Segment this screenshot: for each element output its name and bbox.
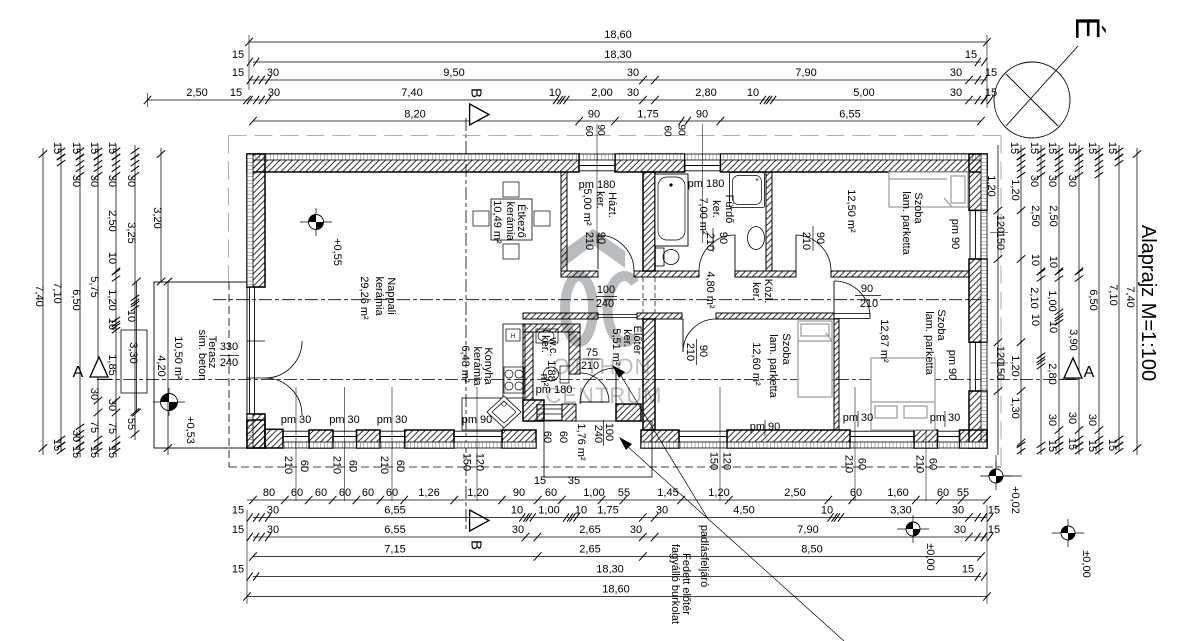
svg-text:10: 10 [1047, 256, 1059, 268]
svg-text:90: 90 [717, 232, 729, 244]
svg-text:120: 120 [994, 215, 1006, 233]
wall: left exterior segment bottom [247, 414, 265, 448]
wall: partition 12.60/12.87 x834 [834, 319, 839, 430]
wall: Wc west x523 [523, 332, 533, 400]
svg-text:2,00: 2,00 [591, 87, 612, 99]
svg-text:30: 30 [952, 505, 964, 517]
dim col right 7,40 [1136, 148, 1138, 455]
svg-text:15: 15 [1066, 438, 1078, 450]
svg-text:18,30: 18,30 [596, 564, 624, 576]
svg-text:90: 90 [513, 487, 525, 499]
svg-text:7,10: 7,10 [51, 282, 63, 303]
north arrow circle [994, 62, 1070, 138]
svg-text:1,20: 1,20 [1009, 355, 1021, 376]
axis line horizontal y300 dash-dot [213, 299, 990, 301]
kitchen stove [504, 367, 524, 393]
svg-text:30: 30 [1066, 175, 1078, 187]
svg-text:ker.: ker. [750, 282, 762, 300]
dim col left 7,40 [42, 148, 44, 455]
svg-text:150: 150 [994, 362, 1006, 380]
svg-text:8,50: 8,50 [801, 544, 822, 556]
svg-text:3,25: 3,25 [125, 222, 137, 243]
dim col right window line [997, 145, 999, 455]
elevation marker plusmn 0,00 right [1052, 532, 1084, 534]
svg-text:fagyálló burkolat: fagyálló burkolat [669, 544, 681, 624]
kitchen counter vertical [503, 324, 525, 398]
wall: Wc east x569-580 [569, 332, 580, 374]
svg-text:2,65: 2,65 [579, 544, 600, 556]
svg-text:15: 15 [1086, 440, 1098, 452]
svg-text:8,20: 8,20 [404, 109, 425, 121]
svg-text:30: 30 [88, 175, 100, 187]
svg-text:Szoba: Szoba [780, 333, 792, 365]
section marker A left [90, 357, 108, 377]
svg-text:15: 15 [1106, 439, 1118, 451]
dim col right 2,50/1,00/2,80 [1058, 145, 1060, 455]
porch outline [544, 421, 652, 477]
dim row top 18,30 [253, 61, 981, 63]
terrace door glazing 330/240 [249, 287, 251, 414]
svg-text:pm 90: pm 90 [949, 219, 961, 250]
dim col terrace 4,20 [167, 282, 169, 456]
svg-text:10: 10 [106, 252, 118, 264]
wall: top exterior segment left [247, 154, 579, 172]
svg-text:OTTHON: OTTHON [553, 354, 652, 379]
svg-text:5,00 m²: 5,00 m² [581, 188, 593, 226]
svg-text:10: 10 [1029, 314, 1041, 326]
svg-text:ker.: ker. [710, 200, 722, 218]
svg-text:60: 60 [541, 431, 553, 443]
entry door opening [575, 404, 577, 421]
svg-text:210: 210 [684, 343, 696, 361]
svg-text:30: 30 [267, 524, 279, 536]
svg-text:210: 210 [704, 233, 716, 251]
dim row bottom b4 [253, 556, 981, 558]
wall: corridor north y271-277 segments [561, 271, 598, 277]
svg-text:Alaprajz M=1:100: Alaprajz M=1:100 [1137, 225, 1159, 381]
svg-text:±0,00: ±0,00 [924, 543, 936, 570]
svg-text:60: 60 [662, 125, 673, 137]
svg-text:lam. parketta: lam. parketta [767, 334, 779, 398]
window top W2 pm180 90cm [685, 154, 721, 160]
svg-text:7,10: 7,10 [1107, 284, 1119, 305]
svg-text:30: 30 [656, 505, 668, 517]
svg-text:15: 15 [51, 142, 63, 154]
svg-text:30: 30 [1046, 175, 1058, 187]
svg-text:2,80: 2,80 [1046, 363, 1058, 384]
wall: 30cm Hazt/Furdo x643-655 upper [643, 172, 655, 271]
svg-text:80: 80 [263, 487, 275, 499]
wall: top exterior segment mid [615, 154, 685, 172]
section marker B top [470, 104, 489, 125]
opening Elater/kitchen 100/240 [597, 313, 599, 319]
bed Szoba 12.87 double [871, 358, 935, 430]
svg-text:60: 60 [583, 125, 594, 137]
kitchen counter bottom [462, 398, 503, 430]
svg-text:kerámia: kerámia [373, 276, 385, 316]
svg-text:30: 30 [125, 175, 137, 187]
svg-text:1,20: 1,20 [985, 175, 997, 196]
svg-text:15: 15 [988, 505, 1000, 517]
svg-text:330: 330 [220, 341, 238, 353]
kitchen fridge H [506, 329, 520, 341]
svg-text:30: 30 [268, 87, 280, 99]
svg-text:4,80 m²: 4,80 m² [704, 271, 716, 309]
svg-text:15: 15 [965, 49, 977, 61]
svg-text:30: 30 [1086, 414, 1098, 426]
window bottom W4 pm90 [454, 430, 502, 432]
svg-text:É: É [1068, 17, 1106, 40]
elevation marker +0,55 Nappali [300, 221, 332, 223]
svg-text:15: 15 [534, 475, 546, 487]
toilet Furdo [655, 248, 664, 266]
svg-text:+0,55: +0,55 [331, 238, 343, 266]
svg-text:210: 210 [378, 456, 390, 474]
svg-text:60: 60 [545, 487, 557, 499]
svg-text:55: 55 [618, 487, 630, 499]
dining chairs [503, 182, 519, 197]
dim col right 1,20/1,30 [1020, 145, 1022, 455]
wall: bottom exterior segments [309, 430, 333, 448]
svg-text:2,50: 2,50 [1047, 205, 1059, 226]
svg-text:7,00 m²: 7,00 m² [697, 197, 709, 235]
svg-text:ker.: ker. [539, 335, 551, 353]
dim row top detail 2,50 / 7,40 / 2,00 / 2,80 / 5,00 [148, 99, 988, 101]
svg-text:15: 15 [232, 564, 244, 576]
wall: entry facade window block [562, 404, 576, 421]
svg-text:2,50: 2,50 [106, 210, 118, 231]
wall: entry facade left block [523, 400, 544, 421]
watermark logo roof chevron [562, 229, 625, 268]
svg-text:10: 10 [821, 505, 833, 517]
svg-text:10,49 m²: 10,49 m² [491, 200, 503, 244]
svg-text:4,50: 4,50 [733, 505, 754, 517]
svg-text:sim. beton: sim. beton [196, 330, 208, 381]
elevation marker +0,02 SE corner [995, 455, 997, 476]
svg-text:1,26: 1,26 [418, 487, 439, 499]
svg-text:60: 60 [339, 487, 351, 499]
wall: right exterior segment top [969, 154, 987, 210]
svg-text:210: 210 [800, 232, 812, 250]
svg-text:90: 90 [861, 283, 873, 295]
svg-text:90: 90 [676, 124, 687, 136]
dim row top 18,60 [249, 41, 987, 43]
dim col terrace 3,30 [136, 282, 138, 413]
svg-text:6,55: 6,55 [384, 524, 405, 536]
svg-text:90: 90 [595, 124, 606, 136]
svg-text:15: 15 [232, 505, 244, 517]
svg-text:12,60 m²: 12,60 m² [750, 342, 762, 386]
svg-text:lam. parketta: lam. parketta [923, 311, 935, 375]
svg-text:10: 10 [106, 318, 118, 330]
svg-text:B: B [468, 88, 485, 98]
svg-text:3,90: 3,90 [1067, 329, 1079, 350]
window bottom W5 pm30 [850, 430, 914, 432]
svg-text:18,30: 18,30 [604, 49, 632, 61]
svg-text:150: 150 [994, 232, 1006, 250]
svg-text:60: 60 [850, 487, 862, 499]
svg-text:1,20: 1,20 [106, 289, 118, 310]
svg-text:1,20: 1,20 [708, 487, 729, 499]
window bottom W2 pm30 [333, 430, 357, 432]
svg-text:210: 210 [860, 298, 878, 310]
leader: padlasfeljaro arrow [612, 365, 625, 378]
svg-text:1,30: 1,30 [1009, 397, 1021, 418]
svg-text:60: 60 [557, 431, 569, 443]
svg-text:2,10: 2,10 [1028, 287, 1040, 308]
svg-text:15: 15 [51, 439, 63, 451]
kitchen corner sink diamond [487, 396, 521, 428]
svg-text:10: 10 [575, 505, 587, 517]
terrace door leaf upper swing [265, 341, 302, 378]
svg-text:55: 55 [957, 487, 969, 499]
terrace roof edge dashed vertical [228, 282, 230, 467]
svg-text:120: 120 [721, 452, 733, 470]
svg-text:1,75: 1,75 [597, 505, 618, 517]
entry door leaf and swing [615, 368, 617, 404]
svg-text:210: 210 [843, 455, 855, 473]
svg-text:75: 75 [586, 347, 598, 359]
svg-text:H: H [511, 334, 515, 340]
svg-text:+0,02: +0,02 [1009, 486, 1021, 514]
svg-text:pm 90: pm 90 [946, 350, 958, 381]
svg-text:15: 15 [70, 142, 82, 154]
svg-text:Fürdő: Fürdő [723, 195, 735, 224]
section line A horizontal dash-dot [100, 379, 1080, 381]
bottom window axis lines [295, 387, 297, 501]
svg-text:30: 30 [630, 524, 642, 536]
svg-text:10,50 m²: 10,50 m² [172, 336, 184, 380]
svg-text:6,55: 6,55 [839, 109, 860, 121]
svg-text:1,85: 1,85 [106, 354, 118, 375]
svg-text:240: 240 [596, 298, 614, 310]
svg-text:210: 210 [282, 456, 294, 474]
wall: corridor south y313-319 segments [523, 313, 598, 319]
svg-text:ker.: ker. [594, 191, 606, 209]
svg-text:6,48 m²: 6,48 m² [459, 345, 471, 383]
svg-text:±0,00: ±0,00 [1080, 550, 1092, 577]
svg-text:1,20: 1,20 [1009, 179, 1021, 200]
wall: Elater east 30cm x643 lower [643, 319, 655, 430]
svg-text:30: 30 [106, 399, 118, 411]
svg-text:Közl.: Közl. [762, 279, 774, 303]
svg-text:lam. parketta: lam. parketta [900, 191, 912, 255]
elevation marker +0,53 terrace [153, 401, 185, 403]
section marker A right [1064, 358, 1082, 378]
terrace outline [154, 282, 247, 448]
svg-text:2,65: 2,65 [579, 524, 600, 536]
toilet Wc [560, 366, 569, 383]
svg-text:Házt.: Házt. [606, 192, 618, 218]
svg-text:Szoba: Szoba [912, 192, 924, 224]
wall: right exterior segment middle [969, 259, 987, 342]
svg-text:pm 30: pm 30 [329, 414, 360, 426]
svg-text:Szoba: Szoba [935, 309, 947, 341]
svg-text:240: 240 [592, 425, 604, 443]
svg-text:18,60: 18,60 [604, 29, 632, 41]
svg-text:1,45: 1,45 [657, 487, 678, 499]
svg-text:15: 15 [88, 446, 100, 458]
svg-text:3,30: 3,30 [890, 505, 911, 517]
wall: Wc north y324 [523, 324, 580, 332]
svg-text:A: A [73, 364, 84, 381]
svg-text:30: 30 [70, 430, 82, 442]
svg-text:4,20: 4,20 [155, 355, 167, 376]
svg-text:A: A [1084, 364, 1095, 381]
terrace door leaf lower swing [265, 378, 302, 415]
wall: entry facade right block [616, 404, 641, 421]
svg-text:B: B [468, 540, 485, 550]
svg-text:35: 35 [568, 475, 580, 487]
dim col left 3,20 [160, 148, 162, 282]
svg-text:pm 90: pm 90 [462, 414, 493, 426]
svg-text:10: 10 [1047, 321, 1059, 333]
svg-text:kerámia: kerámia [471, 346, 483, 386]
shower tray Furdo [730, 173, 765, 208]
svg-text:30: 30 [1028, 175, 1040, 187]
watermark logo letter C [608, 276, 635, 342]
svg-text:15: 15 [1106, 142, 1118, 154]
svg-text:60: 60 [386, 487, 398, 499]
svg-text:150: 150 [708, 452, 720, 470]
svg-text:60: 60 [394, 460, 406, 472]
svg-text:15: 15 [962, 564, 974, 576]
window bottom Wmid pm90 [679, 430, 727, 432]
bed Szoba 12.50 [889, 172, 968, 207]
svg-text:60: 60 [347, 460, 359, 472]
svg-text:9,50: 9,50 [443, 67, 464, 79]
dim col left detail 2,50/1,20/1,85 [115, 145, 117, 452]
svg-text:3,20: 3,20 [151, 207, 163, 228]
svg-text:15: 15 [1046, 142, 1058, 154]
svg-text:7,15: 7,15 [384, 544, 405, 556]
insulation: bottom wall [309, 442, 333, 448]
svg-text:15: 15 [1086, 142, 1098, 154]
svg-text:60: 60 [362, 487, 374, 499]
svg-text:5,75: 5,75 [88, 276, 100, 297]
dim col left 5,75 [97, 145, 99, 452]
svg-text:6,55: 6,55 [384, 505, 405, 517]
svg-text:29,26 m²: 29,26 m² [358, 276, 370, 320]
svg-text:60: 60 [927, 458, 939, 470]
svg-text:30: 30 [267, 67, 279, 79]
svg-text:15: 15 [230, 87, 242, 99]
window bottom W6 pm30 [938, 430, 960, 432]
door: Wc 75/210 [580, 373, 609, 402]
svg-text:pm 180: pm 180 [688, 178, 725, 190]
svg-text:15: 15 [106, 446, 118, 458]
svg-text:210: 210 [331, 456, 343, 474]
svg-text:60: 60 [291, 487, 303, 499]
svg-text:30: 30 [106, 175, 118, 187]
svg-text:90: 90 [814, 232, 826, 244]
svg-text:pm 30: pm 30 [281, 414, 312, 426]
insulation: top wall [247, 154, 579, 160]
svg-text:30: 30 [954, 524, 966, 536]
svg-text:2,50: 2,50 [186, 87, 207, 99]
svg-text:210: 210 [583, 232, 595, 250]
insulation: right wall [981, 154, 987, 210]
corridor west opening dashed edges [642, 277, 644, 313]
svg-text:10: 10 [511, 505, 523, 517]
bathtub [655, 174, 688, 246]
svg-text:15: 15 [1066, 142, 1078, 154]
leader: fedett eloter arrow [619, 437, 632, 450]
svg-text:60: 60 [315, 487, 327, 499]
dim col right 3,90 [1078, 145, 1080, 455]
washbasin Furdo [748, 227, 765, 250]
svg-text:15: 15 [70, 446, 82, 458]
wall: partition left of Hazt x561 [561, 172, 567, 271]
eave dashed line left upper [227, 136, 229, 283]
svg-text:1,60: 1,60 [887, 487, 908, 499]
svg-text:1,00: 1,00 [583, 487, 604, 499]
washbasin Wc [536, 329, 558, 343]
svg-text:2,50: 2,50 [1029, 205, 1041, 226]
window bottom W1 pm30 [283, 430, 309, 432]
svg-text:3,30: 3,30 [127, 342, 139, 363]
dim col right 6,50 [1098, 145, 1100, 455]
wall: left exterior segment top [247, 154, 265, 287]
svg-text:30: 30 [267, 505, 279, 517]
dim row top 9,50/30/7,90/30 [249, 79, 987, 81]
svg-text:90: 90 [588, 109, 600, 121]
svg-text:15: 15 [232, 67, 244, 79]
svg-text:12,50 m²: 12,50 m² [845, 189, 857, 233]
bed Szoba 12.60 [798, 321, 832, 397]
svg-text:30: 30 [88, 388, 100, 400]
door: Szoba 12.50 90/210 [795, 235, 797, 271]
svg-text:7,40: 7,40 [33, 285, 45, 306]
svg-text:90: 90 [696, 109, 708, 121]
wall: right exterior segment bottom [969, 391, 987, 448]
svg-text:100: 100 [597, 284, 615, 296]
window right WR1 120/150 [969, 210, 971, 259]
svg-text:15: 15 [985, 67, 997, 79]
svg-text:30: 30 [950, 67, 962, 79]
wall: bottom exterior corner block [247, 420, 265, 448]
svg-text:15: 15 [1028, 142, 1040, 154]
dim row top windows 8,20/90/1,75/90/6,55 [253, 120, 981, 122]
svg-text:30: 30 [950, 87, 962, 99]
dim col left 7,10 [60, 145, 62, 452]
door: Szoba 12.87 90/210 into corridor [834, 314, 870, 319]
door: Hazt 90/210 [597, 235, 599, 269]
watermark logo letter O [565, 276, 593, 342]
dim row bottom b1 window axes [247, 499, 987, 501]
svg-text:75: 75 [88, 421, 100, 433]
dim row bottom b3 [253, 536, 987, 538]
svg-text:150: 150 [461, 453, 473, 471]
svg-text:Nappali: Nappali [385, 277, 397, 314]
svg-text:100: 100 [603, 423, 615, 441]
svg-text:15: 15 [106, 142, 118, 154]
svg-text:7,90: 7,90 [795, 67, 816, 79]
window W.c. pm180 in entry facade [537, 404, 562, 406]
eave dashed line right [1000, 136, 1002, 468]
dim row bottom b2 [253, 517, 987, 519]
svg-text:pm 180: pm 180 [536, 384, 573, 396]
svg-text:30: 30 [70, 175, 82, 187]
svg-text:padlásfeljáró: padlásfeljáró [698, 525, 710, 587]
dim col left 6,50 [79, 145, 81, 452]
window right WR2 120/150 [969, 342, 971, 391]
svg-text:kerámia: kerámia [504, 201, 516, 241]
section line B vertical dash-dot [465, 118, 467, 532]
svg-text:30: 30 [512, 524, 524, 536]
window bottom W3 pm30 [380, 430, 405, 432]
svg-text:15: 15 [232, 524, 244, 536]
